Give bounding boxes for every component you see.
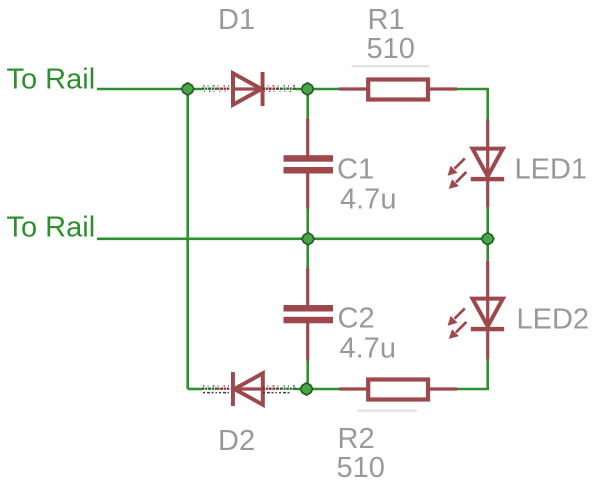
svg-text:To Rail: To Rail: [7, 63, 96, 95]
svg-text:C1: C1: [337, 153, 374, 185]
svg-text:R2: R2: [338, 423, 375, 455]
svg-text:510: 510: [337, 452, 385, 484]
svg-text:4.7u: 4.7u: [340, 183, 396, 215]
svg-text:D2: D2: [218, 425, 255, 457]
svg-text:510: 510: [367, 33, 415, 65]
svg-text:D1: D1: [218, 4, 255, 36]
svg-text:To Rail: To Rail: [7, 212, 96, 244]
svg-text:R1: R1: [368, 4, 405, 36]
svg-text:LED1: LED1: [515, 153, 588, 185]
svg-text:C2: C2: [338, 303, 375, 335]
svg-text:LED2: LED2: [517, 303, 590, 335]
svg-text:4.7u: 4.7u: [340, 333, 396, 365]
